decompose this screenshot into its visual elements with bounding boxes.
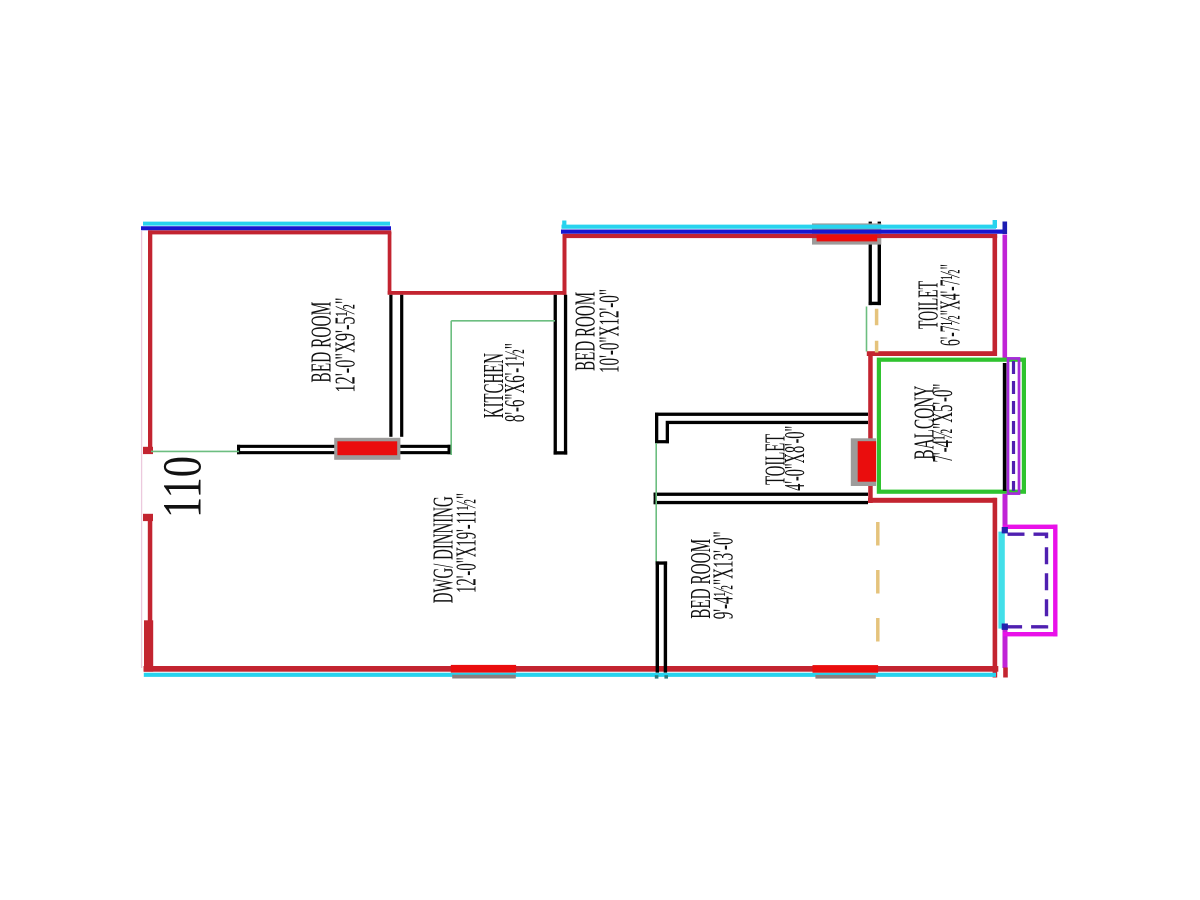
- wall black kitchen left line B: [400, 295, 403, 437]
- wall red stub bottom-right below magenta: [1003, 668, 1008, 678]
- wall black kitchen left line A: [389, 295, 392, 437]
- wall black toilet-2 L vertical A: [655, 413, 658, 444]
- window D1 grey frame on top wall: [812, 223, 881, 244]
- wire cyan line bottom: [144, 673, 996, 677]
- wall black toilet-2 bottom left cap: [654, 493, 657, 505]
- window bay magenta right: [1053, 525, 1057, 637]
- wall black toilet-2 L bottom cap: [655, 440, 669, 443]
- window violet frame balcony: [1008, 358, 1019, 493]
- wall red left bottom wide segment: [144, 620, 153, 671]
- wall black bedroom-1 bottom right cap: [448, 445, 451, 454]
- window dashed purple balcony: [1012, 361, 1015, 491]
- wire cyan stub at step corner: [562, 221, 566, 229]
- wall black kitchen right bottom cap: [554, 451, 568, 454]
- window D5 red bar: [337, 441, 397, 455]
- wall red bottom exterior: [144, 666, 999, 672]
- window black inner line balcony: [1003, 363, 1007, 491]
- window D5 grey frame: [334, 438, 400, 460]
- wall red left door jamb upper cap: [143, 447, 153, 454]
- svg-text:9'-4½"X13'-0": 9'-4½"X13'-0": [709, 531, 740, 619]
- window bay navy tick bottom: [1002, 624, 1008, 630]
- wire faint pink guide line left: [141, 231, 143, 668]
- wire cyan line top-right: [562, 225, 997, 229]
- window bay dashed purple inset: [1008, 534, 1047, 627]
- svg-text:10'-0"X12'-0": 10'-0"X12'-0": [595, 289, 626, 373]
- svg-text:8'-6"X6'-1½": 8'-6"X6'-1½": [500, 343, 531, 422]
- balcony green box: [879, 360, 1024, 492]
- wall black toilet-2 bottom line A: [654, 493, 868, 496]
- wire blue line top-left: [141, 226, 391, 230]
- window bay magenta top: [1003, 525, 1058, 529]
- wall red left upper segment: [148, 230, 152, 447]
- wall black toilet-2 top line B: [669, 421, 868, 424]
- wire blue line top-right: [561, 230, 1007, 234]
- wall red right upper (toilet-1): [993, 236, 998, 357]
- wire thin green kitchen left: [450, 321, 452, 455]
- wire tan dashed toilet-1 door swing: [875, 309, 879, 353]
- wall black bedroom-3 nub A below cyan: [655, 675, 659, 678]
- wall black toilet-2 bottom line B: [654, 501, 868, 504]
- wire thin green toilet-1 door line: [866, 307, 868, 352]
- wall black toilet-1 left line B: [878, 222, 881, 306]
- wall red horizontal kitchen top: [388, 291, 567, 295]
- window bay cyan glass: [998, 532, 1004, 629]
- wall red bedroom-3 top: [868, 498, 996, 503]
- door D2 red leaf: [858, 441, 876, 482]
- wall black toilet-2 top line A: [655, 413, 868, 416]
- svg-text:6'-7½"X4'-7½": 6'-7½"X4'-7½": [936, 264, 967, 346]
- wall red left door jamb lower cap: [143, 514, 153, 521]
- window bay navy tick top: [1002, 527, 1008, 533]
- wire thin green bedroom-3 left: [655, 443, 657, 562]
- svg-text:110: 110: [151, 456, 212, 518]
- svg-text:4'-0"X8'-0": 4'-0"X8'-0": [780, 426, 811, 491]
- wall black toilet-1 bottom cap: [869, 302, 881, 305]
- window D3 red bar: [451, 665, 516, 673]
- wall black toilet-2 L vertical B: [666, 421, 669, 443]
- wire magenta balcony-to-bay: [1003, 494, 1008, 531]
- window D1 red bar: [817, 235, 878, 241]
- wall black bedroom-3 left line B: [664, 561, 667, 672]
- wall black bedroom-1 bottom line A: [237, 445, 451, 448]
- wall red toilet-1 bottom: [867, 351, 997, 356]
- wall red left lower segment: [148, 521, 153, 621]
- wire cyan stub top-right end: [993, 220, 997, 228]
- wall red top right section: [564, 234, 997, 238]
- wire magenta right upper: [1002, 235, 1007, 360]
- wall black bedroom-3 left top cap: [656, 561, 668, 564]
- svg-text:12'-0"X19'-11½": 12'-0"X19'-11½": [451, 493, 482, 593]
- wall red between toilet-2 and balcony: [868, 356, 873, 503]
- window D4 grey sill: [815, 675, 875, 679]
- window D3 grey sill: [452, 675, 516, 679]
- wall red right lower segment: [993, 498, 998, 678]
- wall black bedroom-3 left line A: [656, 561, 659, 672]
- wall red vertical step right x564: [563, 234, 567, 295]
- wall black kitchen right line B: [564, 295, 567, 455]
- svg-text:12'-0"X9'-5½": 12'-0"X9'-5½": [331, 298, 362, 393]
- window D4 red bar: [813, 665, 879, 673]
- wire magenta below bay window: [1003, 629, 1008, 668]
- wall black bedroom-1 bottom line B: [237, 451, 451, 454]
- wire thin green entry line: [151, 450, 239, 452]
- wire cyan line top-left: [143, 222, 390, 226]
- wall black kitchen right line A: [554, 295, 557, 455]
- wire navy stub at top-right corner: [1003, 222, 1008, 235]
- wall red top bedroom-1: [148, 230, 391, 234]
- svg-text:7'-4½"X5'-0": 7'-4½"X5'-0": [928, 384, 959, 463]
- wire thin green kitchen top: [451, 320, 555, 322]
- wire tan dashed bedroom-3 swing: [876, 522, 880, 666]
- wall black toilet-1 left line A: [869, 222, 872, 306]
- door D2 grey frame: [851, 438, 876, 486]
- wall black bedroom-3 nub B below cyan: [664, 675, 668, 678]
- wall red vertical step left x389: [388, 232, 392, 295]
- window bay magenta bottom: [1003, 632, 1058, 636]
- wall black bedroom-1 bottom left cap: [237, 445, 240, 454]
